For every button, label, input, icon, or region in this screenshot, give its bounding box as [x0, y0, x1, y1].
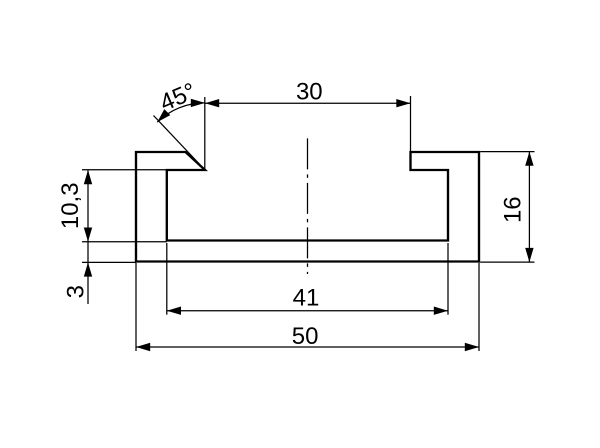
- angle 45: arc: [157, 103, 205, 122]
- arrowhead 50 left: [136, 343, 150, 351]
- dimension 10,3: dimension line: [87, 170, 89, 242]
- chamfer 45-degree construction line: [154, 116, 206, 171]
- dimension 30: dimension line: [205, 102, 411, 104]
- dimension 16: top extension line: [480, 151, 534, 153]
- dimension 41: right extension line: [447, 243, 449, 315]
- arrowhead 30 right: [396, 99, 410, 107]
- svg-text:50: 50: [292, 323, 319, 350]
- svg-text:10,3: 10,3: [57, 182, 84, 229]
- dimension 3: bottom extension line: [82, 261, 136, 263]
- arrowhead 50 right: [465, 343, 479, 351]
- centerline (dash-dot): [307, 138, 309, 274]
- dimension 3: dimension line tail: [87, 242, 89, 304]
- arrowhead 16 bottom: [525, 248, 533, 262]
- arrowhead 10,3 top: [84, 170, 92, 184]
- dimension 10,3: top extension line: [82, 169, 167, 171]
- dimension 30: right extension line: [410, 96, 412, 152]
- dimension 41: left extension line: [166, 243, 168, 315]
- dimension 50: right extension line: [478, 263, 480, 351]
- dimension 30: left extension line: [204, 97, 206, 170]
- arrowhead 10,3 bottom: [84, 228, 92, 242]
- dimension 10,3: bottom extension line: [82, 241, 167, 243]
- dimension 16: dimension line: [528, 152, 530, 263]
- dimension 50: left extension line: [135, 263, 137, 351]
- arrowhead 16 top: [525, 152, 533, 166]
- arrowhead 30 left: [205, 99, 219, 107]
- profile outline: [136, 152, 479, 262]
- arrowhead 41 right: [434, 307, 448, 315]
- dimension 50: dimension line: [136, 346, 479, 348]
- svg-text:41: 41: [293, 284, 320, 311]
- arrowhead 3 up: [84, 262, 92, 276]
- svg-text:30: 30: [296, 78, 323, 105]
- arrowhead 45 arc bottom: [157, 109, 170, 122]
- svg-text:3: 3: [63, 285, 90, 298]
- arrowhead 45 arc top: [191, 99, 205, 107]
- dimension 16: bottom extension line: [480, 261, 534, 263]
- svg-text:16: 16: [500, 196, 527, 223]
- arrowhead 41 left: [167, 307, 181, 315]
- dimension 41: dimension line: [167, 310, 448, 312]
